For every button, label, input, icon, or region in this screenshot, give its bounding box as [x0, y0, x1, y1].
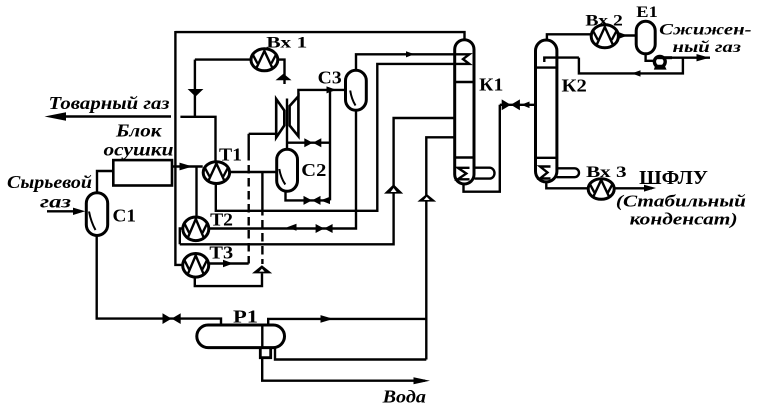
turbo-expander (expander-compressor) — [276, 96, 298, 137]
svg-text:(Стабильный: (Стабильный — [616, 192, 746, 211]
arrow liquefied gas — [697, 54, 710, 61]
reflux drum E1 — [636, 21, 655, 54]
svg-text:Вх 2: Вх 2 — [585, 12, 623, 29]
arrow up below Bx1 — [276, 74, 292, 81]
valve V2 — [304, 196, 313, 205]
wire T1 to C2 — [230, 171, 276, 173]
throttle funnel valve — [188, 89, 204, 97]
column K2 — [536, 40, 557, 182]
K2 interior tray lower — [537, 157, 557, 159]
svg-text:ный газ: ный газ — [673, 39, 741, 56]
K1 reboiler loop — [475, 168, 495, 179]
valve V3 — [316, 224, 325, 233]
wire feed gas into C1 — [47, 210, 77, 212]
svg-text:Сжижен-: Сжижен- — [659, 22, 752, 39]
valve V5 — [163, 313, 172, 324]
arrow at K2 side of valve — [521, 102, 529, 109]
wire left main vertical down to T3 inlet — [175, 31, 183, 265]
wire T1 top bridge to funnel line — [180, 117, 215, 162]
wire riser x330 from C3 feed junction — [329, 90, 331, 200]
K1 interior feed lines and chevron — [454, 54, 469, 64]
svg-text:Вода: Вода — [381, 387, 426, 407]
wire K1 bottoms to valve riser — [464, 105, 500, 192]
C1 internal tick — [89, 212, 96, 231]
separator C3 — [346, 70, 367, 110]
svg-text:конденсат): конденсат) — [630, 209, 738, 228]
svg-text:ШФЛУ: ШФЛУ — [639, 168, 708, 189]
arrow after T3 — [223, 260, 233, 267]
K1 interior tray lower — [455, 156, 474, 158]
svg-text:Р1: Р1 — [233, 306, 258, 326]
dashed riser expander feed from T3 — [247, 134, 249, 264]
K1 interior sigma coil — [458, 168, 470, 180]
wire expander discharge down to C2 top — [286, 99, 288, 150]
svg-text:С2: С2 — [301, 160, 326, 180]
K2 interior reflux pipe — [544, 58, 579, 62]
valve V1 — [304, 138, 313, 147]
svg-text:Е1: Е1 — [636, 4, 658, 21]
svg-text:осушки: осушки — [104, 140, 174, 160]
svg-text:Вх 1: Вх 1 — [266, 34, 307, 51]
separator C1 — [86, 193, 107, 236]
K2 interior tray upper — [537, 66, 557, 68]
wire Bx1 right side down — [278, 60, 285, 84]
wire product gas line with arrow — [55, 115, 171, 117]
dashed riser T3 bottom loop to T1 outlet line — [261, 172, 263, 264]
wire water line with arrow — [262, 358, 425, 381]
P1 internal baffle — [261, 326, 263, 348]
wire C1 bottom to P1 inlet — [97, 235, 221, 325]
dryer block Блок осушки — [113, 160, 172, 185]
wire Bx2 to E1 with arrow — [618, 34, 636, 36]
wire riser x426 P1 vapor to K1 feed y137 — [426, 137, 454, 359]
arrow on reflux line — [632, 70, 641, 76]
arrow on P1 vapor line — [321, 315, 334, 323]
svg-text:К2: К2 — [562, 75, 587, 95]
arrow into T2 — [287, 224, 297, 231]
wire Bx3 to SHFLU outlet with arrow — [614, 187, 652, 189]
arrow water — [414, 377, 431, 384]
wire K2 overhead to Bx2 — [547, 34, 591, 40]
wire E1 bottom to pump — [646, 54, 655, 61]
wire top loop from K1 dome to left main vertical — [175, 32, 464, 41]
wire T3 outlet to dashed riser with arrow — [209, 262, 249, 264]
wire C2 bottom valve line V2 — [286, 192, 331, 201]
svg-text:С3: С3 — [318, 68, 342, 88]
wire C1 top to dryer — [97, 171, 113, 192]
column K1 — [455, 40, 474, 184]
arrow up hollow on riser x394 — [384, 184, 403, 193]
wire funnel riser — [194, 60, 196, 117]
wire T1 bottom to K1 lower-top feed (via riser x377) — [216, 64, 454, 211]
arrow into C3 — [327, 86, 337, 93]
flash drum P1 — [197, 325, 285, 348]
arrow into T1 — [180, 163, 193, 171]
wire collect line y244 to K1 feed y118 (riser x394) — [180, 118, 454, 244]
svg-text:С1: С1 — [113, 205, 137, 225]
K1 interior tray upper — [455, 81, 474, 83]
K2 reboiler loop — [557, 168, 579, 177]
wire compressor outlet to C3 with arrow — [298, 90, 344, 97]
air cooler Bx1 — [251, 49, 278, 71]
wire reflux branch back to K2 — [579, 58, 683, 74]
svg-text:Вх 3: Вх 3 — [586, 164, 626, 181]
wire expander inlet from dashed riser — [249, 133, 276, 135]
arrow up hollow on riser x262 — [252, 265, 272, 273]
separator C2 — [277, 149, 298, 191]
wire C3 bottom riser to T2 inlet line — [209, 110, 356, 229]
svg-text:Т3: Т3 — [209, 243, 233, 263]
heat exchanger T2 — [183, 217, 209, 241]
heat exchanger T3 — [183, 253, 209, 277]
svg-text:газ: газ — [40, 191, 71, 211]
wire C3 top to K1 upper feed with arrow — [356, 54, 454, 70]
P1 water boot — [260, 349, 270, 358]
wire to air cooler Bx1 — [195, 58, 251, 60]
air cooler Bx2 — [591, 25, 618, 48]
arrow on K1 feed — [406, 51, 414, 57]
wire P1 liquid line to riser — [275, 348, 426, 360]
heat exchanger T1 — [203, 162, 229, 184]
wire C2 gas valve line V1 — [287, 141, 330, 143]
wire T2 left stub down to collect line — [180, 229, 183, 245]
arrow toward V2 — [321, 197, 331, 204]
arrow up hollow on riser x426 — [417, 194, 436, 202]
svg-text:Блок: Блок — [115, 121, 163, 141]
svg-text:Сырьевой: Сырьевой — [7, 172, 92, 192]
arrow SHFLU — [644, 185, 656, 192]
svg-text:Т2: Т2 — [210, 210, 233, 230]
wire valve line K1-K2 — [500, 104, 535, 106]
wire riser x262 below arrow — [195, 273, 262, 286]
C3 internal tick — [350, 91, 355, 106]
wire branch down to T2 — [195, 167, 197, 218]
wire pump discharge to product with arrow — [672, 57, 710, 59]
arrow feed gas — [73, 208, 85, 215]
arrow into E1 — [619, 32, 628, 38]
arrow product gas left — [45, 112, 67, 120]
wire P1 vapor line to riser with arrow — [268, 319, 426, 325]
C2 internal tick — [279, 169, 285, 185]
svg-text:Т1: Т1 — [219, 145, 242, 165]
pump P — [654, 56, 665, 67]
K2 interior sigma coil — [540, 167, 551, 179]
wire K2 bottoms to Bx3 — [546, 182, 588, 189]
wire dryer to T1 with arrow — [172, 165, 203, 167]
svg-text:К1: К1 — [479, 74, 503, 94]
air cooler Bx3 — [588, 179, 614, 200]
svg-text:Товарный газ: Товарный газ — [49, 93, 170, 113]
valve V4 — [502, 99, 511, 110]
